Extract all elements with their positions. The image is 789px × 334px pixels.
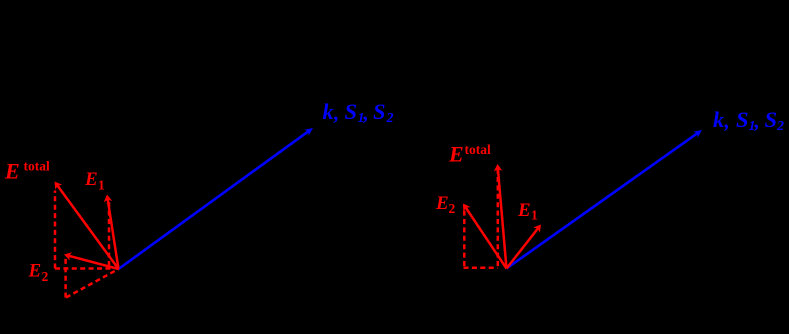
svg-text:S: S	[373, 99, 386, 124]
label E^total right	[448, 142, 491, 167]
svg-text:,: ,	[724, 109, 730, 133]
label E1 left	[84, 169, 105, 193]
svg-text:1: 1	[98, 178, 105, 193]
svg-text:2: 2	[776, 119, 784, 134]
svg-text:S: S	[345, 99, 358, 124]
dashed horizontal axis segment, right	[464, 267, 498, 270]
svg-text:2: 2	[42, 269, 49, 284]
svg-text:,: ,	[333, 101, 339, 125]
svg-text:k: k	[713, 107, 724, 132]
svg-text:E: E	[4, 159, 20, 184]
vector E1 left (red arrow)	[104, 195, 119, 270]
svg-text:E: E	[448, 142, 464, 167]
label E1 right	[517, 200, 538, 223]
wave vector k right (blue arrow)	[507, 130, 703, 269]
svg-text:E: E	[517, 200, 531, 221]
svg-text:k: k	[323, 99, 334, 124]
svg-text:E: E	[84, 169, 98, 190]
vector E2 left (red solid arrow)	[64, 252, 119, 269]
wave vector k left (blue arrow)	[119, 128, 314, 269]
vector E2 right (red solid arrow)	[463, 204, 507, 269]
svg-text:S: S	[736, 107, 749, 132]
dashed vertical projection from E_total tip, right	[497, 170, 500, 266]
svg-text:,: ,	[363, 101, 369, 125]
svg-text:,: ,	[754, 109, 760, 133]
label E2 left	[28, 261, 49, 285]
dashed vertical projection from E1 tip, left	[108, 200, 111, 266]
dashed horizontal projection to origin, left	[55, 267, 113, 270]
svg-text:total: total	[465, 142, 491, 157]
svg-text:E: E	[28, 261, 42, 282]
dashed diagonal axis from origin down-left, left	[66, 269, 119, 298]
label E^total left	[4, 159, 50, 184]
svg-text:2: 2	[449, 201, 456, 216]
svg-text:2: 2	[386, 111, 394, 126]
label E2 right	[435, 193, 456, 216]
vector E_total right (red arrow)	[494, 164, 507, 269]
dashed vertical drop from E2 tip, right	[463, 205, 466, 266]
svg-text:S: S	[765, 107, 778, 132]
vector E_total left (red solid arrow)	[55, 182, 119, 270]
vector E1 right (red solid arrow)	[507, 225, 542, 269]
svg-text:1: 1	[531, 208, 538, 223]
dashed vertical drop from E2 tip, left	[64, 257, 67, 298]
svg-text:total: total	[24, 159, 50, 174]
dashed vertical projection from E_total tip, left	[54, 191, 57, 269]
label k, S1, S2 left	[323, 99, 394, 126]
label k, S1, S2 right	[713, 107, 784, 134]
svg-text:E: E	[435, 193, 449, 214]
